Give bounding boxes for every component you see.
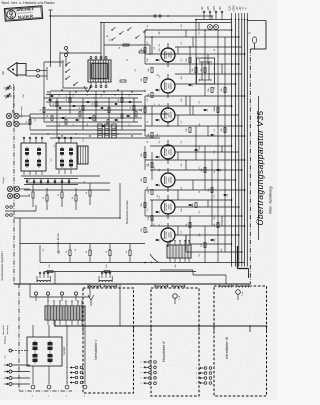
svg-text:2000: 2000 (169, 232, 171, 238)
svg-text:(Netz - Ausführung): (Netz - Ausführung) (269, 186, 273, 214)
svg-text:2k: 2k (118, 99, 120, 101)
svg-text:-12V: -12V (208, 6, 210, 11)
svg-text:4W: 4W (23, 94, 25, 97)
svg-text:2k: 2k (40, 109, 42, 111)
svg-text:Eingang: Eingang (5, 335, 7, 344)
svg-text:Speisung: Speisung (7, 325, 9, 335)
svg-text:+12V: +12V (230, 5, 232, 11)
svg-text:+4V: +4V (240, 6, 242, 11)
svg-text:2M: 2M (199, 146, 201, 149)
svg-text:2000: 2000 (169, 149, 171, 155)
svg-text:Bestücken-Ersatz: Bestücken-Ersatz (56, 232, 60, 253)
svg-text:2k: 2k (66, 99, 68, 101)
svg-text:2k: 2k (79, 107, 81, 109)
svg-text:+2V: +2V (202, 6, 204, 11)
svg-text:Gemeinsames Regelteil I: Gemeinsames Regelteil I (0, 251, 4, 280)
svg-text:1M: 1M (181, 76, 183, 79)
svg-text:Tr I: Tr I (53, 144, 56, 147)
svg-text:Verstärker III: Verstärker III (224, 336, 229, 359)
svg-text:Verstärker II: Verstärker II (161, 341, 166, 363)
svg-text:2000: 2000 (169, 83, 171, 89)
svg-text:2000: 2000 (169, 52, 171, 58)
svg-text:2000: 2000 (169, 177, 171, 183)
svg-text:Regler: Regler (2, 177, 5, 184)
svg-text:-2V: -2V (237, 6, 239, 10)
svg-text:2k: 2k (26, 121, 28, 123)
svg-text:2M: 2M (181, 24, 183, 27)
svg-text:Tr II: Tr II (82, 138, 85, 142)
svg-text:Übertragungsapparatur V35: Übertragungsapparatur V35 (255, 110, 265, 225)
svg-text:2000: 2000 (169, 112, 171, 118)
svg-text:Anpassung: Anpassung (20, 106, 23, 118)
svg-text:Bestücken-Ersatz: Bestücken-Ersatz (125, 200, 129, 224)
svg-text:2k: 2k (130, 107, 132, 109)
svg-text:+220V: +220V (234, 5, 236, 12)
svg-text:+87V: +87V (214, 5, 216, 11)
svg-text:2000: 2000 (169, 204, 171, 210)
svg-text:2k: 2k (53, 103, 55, 105)
svg-text:Verstärker I: Verstärker I (93, 339, 98, 360)
svg-text:+4V: +4V (220, 6, 222, 11)
svg-text:Anschluß: Anschluß (2, 325, 5, 335)
svg-text:Netzteil: Netzteil (63, 347, 66, 355)
svg-text:2k: 2k (92, 103, 94, 105)
svg-text:Ned. Ver. v. Historie v/d Radi: Ned. Ver. v. Historie v/d Radio (2, 0, 56, 5)
